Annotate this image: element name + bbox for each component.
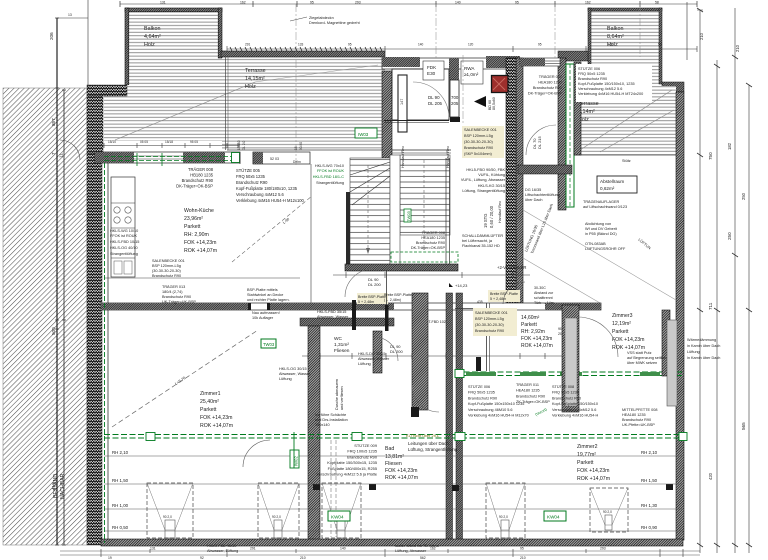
svg-text:857: 857: [51, 118, 56, 126]
svg-text:147: 147: [400, 99, 404, 105]
svg-text:Handlauf Rex: Handlauf Rex: [446, 146, 450, 168]
dining diagonal: [232, 196, 312, 262]
schalldaemmluefter label: [462, 234, 503, 248]
svg-text:95 05: 95 05: [190, 140, 198, 144]
svg-text:Abstellraum: Abstellraum: [600, 179, 624, 184]
svg-text:15/18: 15/18: [165, 140, 173, 144]
svg-text:DG 16/35: DG 16/35: [525, 188, 541, 192]
svg-text:FOK +14,23m: FOK +14,23m: [184, 240, 216, 246]
hkls fbd 3515 label: [317, 310, 349, 319]
left dim lines: [56, 18, 58, 545]
svg-text:Kopf-Fußplatte 150/150x10: Kopf-Fußplatte 150/150x10: [552, 402, 598, 406]
shaft wall: [412, 293, 428, 410]
svg-text:FRQ 50x5 1235: FRQ 50x5 1235: [236, 174, 266, 179]
kitchen ceiling edge line: [104, 277, 300, 279]
svg-text:Lüftung, Abwasser: Lüftung, Abwasser: [395, 549, 427, 553]
south wall band: [101, 539, 683, 546]
bsp platte olive note: [247, 288, 290, 302]
svg-text:92: 92: [200, 556, 204, 560]
svg-text:8,64m²: 8,64m²: [607, 34, 624, 40]
svg-text:Breite BSP-Platte: Breite BSP-Platte: [490, 292, 518, 296]
svg-text:Holz: Holz: [245, 84, 256, 90]
svg-text:SCHALLDÄMMLÜFTER: SCHALLDÄMMLÜFTER: [462, 234, 503, 238]
svg-text:Holz: Holz: [144, 42, 155, 48]
svg-text:Abstand zur: Abstand zur: [534, 291, 554, 295]
svg-text:80,5x60: 80,5x60: [492, 97, 496, 110]
svg-text:(→ 2,48m): (→ 2,48m): [384, 298, 401, 302]
halbdecke olive label: [462, 126, 504, 158]
svg-text:Zimmer2: Zimmer2: [577, 444, 598, 450]
svg-text:Brandschutz R90: Brandschutz R90: [578, 77, 607, 81]
svg-text:ROK +14,07m: ROK +14,07m: [577, 476, 610, 482]
terrace deck right part: [222, 58, 385, 150]
svg-text:10k Auflager: 10k Auflager: [252, 316, 274, 320]
svg-text:VUFIL, Kühlung: VUFIL, Kühlung: [478, 173, 505, 177]
svg-text:FFOK ist ROUK: FFOK ist ROUK: [110, 234, 137, 238]
svg-text:Wohn-Küche: Wohn-Küche: [184, 208, 214, 214]
neighbour wall masonry strip: [87, 153, 102, 545]
lift shaft: [392, 69, 449, 120]
svg-text:Brandschutz R90: Brandschutz R90: [552, 396, 581, 400]
svg-text:95: 95: [538, 43, 542, 47]
duct column: [450, 80, 459, 117]
green band boxes: [146, 433, 687, 441]
svg-text:Balkon: Balkon: [144, 26, 160, 32]
svg-text:19 STG: 19 STG: [483, 214, 488, 228]
svg-text:Stütz: Stütz: [622, 159, 631, 163]
svg-text:140: 140: [418, 43, 424, 47]
svg-text:OTN-083AB: OTN-083AB: [585, 242, 606, 246]
svg-text:BSP 120mm-L5g: BSP 120mm-L5g: [464, 134, 493, 138]
black post squares: [313, 484, 320, 490]
verteiler green dashed box: [391, 252, 458, 262]
wall WC east: [373, 331, 382, 373]
door jamb blocks: [352, 300, 356, 330]
svg-text:FRQ 50x5 1235: FRQ 50x5 1235: [468, 391, 495, 395]
svg-text:25,40m²: 25,40m²: [200, 399, 219, 405]
hkls do label: [358, 352, 390, 366]
svg-text:Balkon: Balkon: [607, 26, 623, 32]
green verticals near ducts: [293, 432, 295, 468]
svg-text:Parkett: Parkett: [200, 407, 217, 413]
svg-text:Verschraubung 4xM12 5.6: Verschraubung 4xM12 5.6: [578, 87, 622, 91]
door triangle: [474, 96, 486, 107]
svg-text:Lüftung, Strangentlüftung: Lüftung, Strangentlüftung: [408, 447, 458, 452]
svg-text:Verschraubung 4xM12 5.6: Verschraubung 4xM12 5.6: [552, 408, 596, 412]
svg-text:RH 1,00: RH 1,00: [112, 503, 129, 508]
svg-text:293: 293: [600, 547, 606, 551]
traeger 008 core label: [411, 231, 446, 250]
svg-text:140: 140: [340, 547, 346, 551]
tiny dim numbers bottom: [108, 547, 606, 560]
svg-text:Brandschutz R90: Brandschutz R90: [416, 241, 445, 245]
svg-text:1,31m²: 1,31m²: [334, 342, 349, 348]
svg-text:HKLS-DO 30/15: HKLS-DO 30/15: [358, 352, 385, 356]
svg-text:UK-Pfette=UK-BSP: UK-Pfette=UK-BSP: [622, 423, 655, 427]
svg-text:Isolier Wand ins TB-Wand: Isolier Wand ins TB-Wand: [395, 544, 439, 548]
right room west wall: [558, 58, 566, 210]
green purlin line: [104, 435, 682, 439]
svg-text:291: 291: [245, 43, 251, 47]
svg-text:RH 1,30: RH 1,30: [641, 503, 658, 508]
svg-text:Verschraubung 4xM12 5.6: Verschraubung 4xM12 5.6: [236, 192, 285, 197]
svg-text:Türk → 14m: Türk → 14m: [534, 301, 554, 305]
svg-text:STÜTZE 008: STÜTZE 008: [552, 385, 574, 389]
svg-text:über MWK setzen: über MWK setzen: [627, 361, 657, 365]
balcony border band left: [125, 8, 129, 85]
svg-text:SALENBECKE 001: SALENBECKE 001: [152, 259, 185, 263]
dense tick strip on chain dim: [230, 47, 382, 51]
svg-text:auf Begrenzung seitlich: auf Begrenzung seitlich: [627, 356, 666, 360]
vorfuehre note: [315, 413, 348, 427]
svg-text:Brandschutz R90: Brandschutz R90: [236, 180, 268, 185]
kitchen inner dim line: [101, 145, 240, 147]
svg-text:Fliesen: Fliesen: [385, 461, 402, 467]
svg-text:über Dach: über Dach: [525, 198, 543, 202]
svg-text:NACHBAR: NACHBAR: [60, 473, 66, 499]
svg-text:7: 7: [51, 152, 56, 155]
balcony border top: [588, 8, 662, 11]
svg-text:Brandschutz R90: Brandschutz R90: [475, 329, 504, 333]
vss note: [627, 351, 666, 365]
diele west wall lines: [486, 303, 488, 371]
terrace east boundary: [225, 57, 227, 150]
svg-text:in P55 (Bkknd DG): in P55 (Bkknd DG): [585, 232, 617, 236]
terrace right deck: [581, 86, 676, 155]
svg-text:Zimmer3: Zimmer3: [612, 313, 633, 319]
svg-text:HKLS-WG 10/10: HKLS-WG 10/10: [110, 229, 138, 233]
corner block: [662, 82, 684, 92]
svg-text:STÜTZE 006: STÜTZE 006: [468, 385, 490, 389]
interior dim line under core: [333, 274, 530, 276]
kitchen north wall band with windows: [95, 152, 240, 163]
svg-text:HKLS-KG 30/15: HKLS-KG 30/15: [478, 184, 505, 188]
svg-text:Drenkord- Magnettine gedreht: Drenkord- Magnettine gedreht: [309, 21, 361, 25]
core bottom wall: [345, 264, 458, 271]
TW03 box stair rotated: [404, 209, 411, 222]
svg-text:565: 565: [741, 422, 746, 430]
svg-text:(30-30-30-20-30): (30-30-30-20-30): [464, 140, 493, 144]
balcony border right: [659, 8, 662, 84]
svg-text:05 05: 05 05: [140, 140, 148, 144]
isolier note: [395, 544, 439, 553]
svg-text:VUFIL, Lüftung, Abwasser: VUFIL, Lüftung, Abwasser: [461, 178, 506, 182]
door arc lift: [413, 82, 449, 118]
north wall band right segment: [520, 58, 560, 66]
svg-text:Flachkanal 35-152 HD: Flachkanal 35-152 HD: [462, 244, 500, 248]
svg-text:FOK +14,23m: FOK +14,23m: [577, 468, 609, 474]
svg-text:BSP-Platte mittels: BSP-Platte mittels: [247, 288, 278, 292]
svg-text:(30-30-30-20-30): (30-30-30-20-30): [152, 269, 181, 273]
svg-text:FRQ 50x5 1235: FRQ 50x5 1235: [578, 72, 605, 76]
svg-text:und rechter Platte lagern.: und rechter Platte lagern.: [247, 298, 290, 302]
svg-text:90: 90: [558, 327, 562, 331]
west wall zigzag upper: [87, 96, 103, 153]
svg-text:RH 0,90: RH 0,90: [641, 525, 658, 530]
stair west rail: [346, 192, 350, 265]
door arc hall north: [345, 269, 373, 297]
stair right flight treads: [400, 155, 450, 235]
svg-text:Dehn: Dehn: [293, 160, 301, 164]
svg-text:Brandschutz R90: Brandschutz R90: [464, 146, 493, 150]
Zimmer1 diagonal: [112, 330, 258, 427]
svg-text:FRQ 100x5 1235: FRQ 100x5 1235: [347, 449, 377, 454]
svg-text:ZK-Träger=OK-BSP: ZK-Träger=OK-BSP: [516, 400, 550, 404]
building east edge at terrace: [574, 62, 581, 155]
svg-text:Brandschutz R90: Brandschutz R90: [182, 178, 214, 183]
svg-text:Kopf-Fußplatte 180/180x10, 123: Kopf-Fußplatte 180/180x10, 1235: [236, 186, 298, 191]
svg-text:STÜTZE 005: STÜTZE 005: [236, 168, 261, 173]
svg-text:DK-Träger=OK-BSP: DK-Träger=OK-BSP: [176, 184, 213, 189]
east outer wall band: [676, 92, 684, 540]
waermedaemmung note: [687, 338, 720, 360]
svg-text:Ziegelabdeckn: Ziegelabdeckn: [309, 16, 334, 20]
svg-text:12,19m²: 12,19m²: [612, 321, 631, 327]
svg-text:Wf und DV Geberit: Wf und DV Geberit: [585, 227, 618, 231]
svg-text:Nau aufmassen!: Nau aufmassen!: [252, 311, 280, 315]
kitchen hkls label: [110, 229, 139, 256]
svg-text:562: 562: [420, 556, 426, 560]
svg-text:LÜFTUNGSROHR OFF: LÜFTUNGSROHR OFF: [585, 247, 626, 251]
svg-text:RH: 2,90m: RH: 2,90m: [184, 232, 209, 238]
svg-text:DL 215: DL 215: [537, 135, 542, 149]
svg-text:TRÄGENAUFLAGER: TRÄGENAUFLAGER: [583, 200, 620, 204]
svg-text:schalttrennt: schalttrennt: [534, 296, 553, 300]
svg-text:RWA: RWA: [464, 66, 475, 71]
svg-text:419: 419: [51, 482, 56, 490]
door arc terrace top: [60, 140, 80, 160]
svg-text:250: 250: [727, 232, 732, 240]
svg-text:auf Liftschachtwand 0/123: auf Liftschachtwand 0/123: [583, 205, 627, 209]
ziegel note: [309, 16, 361, 25]
right room door arc: [526, 125, 556, 155]
svg-text:Parkett: Parkett: [612, 329, 629, 335]
core east wall: [506, 58, 516, 303]
svg-text:HKLS-OG 30/15: HKLS-OG 30/15: [279, 367, 307, 371]
stuetze/traeger labels under purlin: [468, 385, 529, 418]
traeger 013 label: [162, 285, 196, 304]
svg-text:13: 13: [68, 13, 72, 17]
svg-text:HKLS-FBD 18/1-C: HKLS-FBD 18/1-C: [313, 175, 344, 179]
north wall band of core: [382, 58, 520, 69]
tiny dim numbers top: [160, 1, 659, 5]
svg-text:5 + 2,48m: 5 + 2,48m: [358, 300, 374, 304]
svg-text:FRQ 50x5 1235: FRQ 50x5 1235: [552, 391, 579, 395]
svg-text:Verschraubung 46M10 5.6: Verschraubung 46M10 5.6: [468, 408, 513, 412]
svg-text:Terrasse: Terrasse: [245, 68, 266, 74]
svg-text:19,77m²: 19,77m²: [577, 452, 596, 458]
KW04 box right: [544, 511, 566, 521]
svg-text:Parkett: Parkett: [577, 460, 594, 466]
svg-text:13,81m²: 13,81m²: [385, 454, 404, 460]
wall Zimmer3 west: [562, 305, 579, 412]
terrace deck left part: [104, 96, 227, 141]
svg-text:DK-Träger=OK-BSP: DK-Träger=OK-BSP: [411, 246, 446, 250]
svg-text:RH 2,10: RH 2,10: [641, 450, 658, 455]
svg-text:30-30C: 30-30C: [534, 286, 546, 290]
bottom dim lines: [60, 550, 700, 552]
green west wall line: [104, 163, 106, 543]
svg-text:TRÄGER 008: TRÄGER 008: [422, 231, 445, 235]
svg-text:Brandschutz R90: Brandschutz R90: [533, 86, 562, 90]
beam end green box TW03: [232, 153, 240, 163]
terrace bottom edge line: [227, 149, 385, 151]
stair treads: [350, 158, 390, 265]
svg-text:Abdichtung von: Abdichtung von: [585, 222, 611, 226]
svg-text:180/4 (2,74): 180/4 (2,74): [162, 290, 183, 294]
svg-text:90 2,0: 90 2,0: [603, 510, 612, 514]
chained dim line: [227, 48, 697, 50]
svg-text:BSP 120mm-L5g: BSP 120mm-L5g: [475, 317, 504, 321]
svg-text:Brandschutz R90: Brandschutz R90: [152, 274, 181, 278]
svg-text:und Drs-Installation: und Drs-Installation: [315, 418, 348, 422]
otn label: [585, 242, 626, 251]
wall band east of kitchen: [253, 152, 310, 164]
stair well gap: [390, 155, 400, 265]
svg-text:HEA180 1235: HEA180 1235: [538, 81, 562, 85]
svg-text:Stahlwinkel an Decke: Stahlwinkel an Decke: [247, 293, 283, 297]
abdichtung label: [585, 222, 618, 236]
landing wall lines: [392, 149, 451, 151]
door arc zimmer3: [578, 317, 618, 357]
svg-text:56: 56: [658, 43, 662, 47]
svg-text:DL 2.0: DL 2.0: [242, 141, 246, 150]
stuetze 006 white backing: [576, 64, 652, 102]
svg-text:711: 711: [708, 302, 713, 310]
svg-text:23,96m²: 23,96m²: [184, 216, 203, 222]
svg-text:Verklebung 4xM16 HU54-H MT24x2: Verklebung 4xM16 HU54-H MT24x200: [578, 92, 643, 96]
svg-text:Kopfplatte 150/300x15, 1235: Kopfplatte 150/300x15, 1235: [327, 460, 377, 465]
chimney grey block: [667, 320, 677, 406]
terrace right south edge: [574, 154, 676, 156]
svg-text:DL 90: DL 90: [428, 95, 440, 100]
terrace north wall band: [221, 51, 385, 57]
svg-text:TRÄGER 008: TRÄGER 008: [188, 167, 214, 172]
svg-text:Leitungen über Dach: Leitungen über Dach: [408, 441, 449, 446]
door sill black: [450, 117, 460, 122]
svg-text:KLTNcht über 2h.L: KLTNcht über 2h.L: [406, 433, 440, 438]
svg-text:Strangentlüftung: Strangentlüftung: [110, 252, 138, 256]
right room south wall: [518, 165, 572, 174]
IW03 green box: [355, 128, 377, 138]
svg-text:TRÄGER 013: TRÄGER 013: [162, 285, 185, 289]
kitchen cabinets: [111, 177, 135, 277]
svg-text:IW03: IW03: [358, 132, 369, 137]
svg-text:Parkett: Parkett: [184, 224, 201, 230]
svg-text:133: 133: [298, 43, 304, 47]
svg-text:(SKP 5x104mm): (SKP 5x104mm): [464, 152, 493, 156]
svg-text:120: 120: [468, 43, 474, 47]
lauflinie arrow: [367, 165, 369, 250]
balcony border left: [588, 8, 591, 64]
green column strip: [566, 64, 574, 207]
WC north wall band: [300, 318, 394, 326]
svg-text:und verfliesen: und verfliesen: [340, 386, 344, 410]
hkls fbd 4530 label: [207, 544, 238, 553]
stuetze 010 label: [316, 443, 377, 477]
svg-text:435: 435: [477, 300, 483, 304]
door arc corridor south: [412, 385, 439, 412]
svg-text:DL 205: DL 205: [428, 101, 443, 106]
svg-text:Parkett: Parkett: [521, 322, 537, 328]
top dim line: [120, 3, 697, 5]
duct wall long: [446, 293, 453, 543]
svg-text:Wärmedämmung: Wärmedämmung: [687, 338, 716, 342]
svg-text:WC: WC: [334, 336, 343, 342]
svg-text:Verklebung 4xM16 HU54-H: Verklebung 4xM16 HU54-H: [552, 414, 598, 418]
svg-text:205: 205: [451, 101, 459, 106]
core west wall: [382, 71, 392, 158]
bottom dim ticks: [101, 549, 683, 557]
svg-text:FOK +14,23m: FOK +14,23m: [200, 415, 232, 421]
svg-text:FOK +14,23m: FOK +14,23m: [385, 468, 417, 474]
svg-text:TW03: TW03: [263, 342, 275, 347]
svg-text:VSS statt Putz: VSS statt Putz: [627, 351, 652, 355]
svg-text:HKLS-FBD 10/15: HKLS-FBD 10/15: [110, 240, 139, 244]
balcony Balkon 8,64 deck: [588, 8, 662, 86]
svg-text:210: 210: [300, 556, 306, 560]
svg-text:RH 1,50: RH 1,50: [112, 478, 129, 483]
stair left hkls label: [313, 164, 345, 185]
wall WC west: [308, 326, 320, 540]
Zimmer3 east wall: [662, 310, 670, 376]
svg-text:Zimmer1: Zimmer1: [200, 391, 221, 397]
svg-text:Lüftung: Lüftung: [687, 350, 700, 354]
balcony Balkon 4,64 deck: [125, 8, 222, 85]
svg-text:Handlauf Rex: Handlauf Rex: [498, 201, 502, 223]
skylight 1: [147, 483, 628, 538]
svg-text:Abwasser, Wasser,: Abwasser, Wasser,: [279, 372, 311, 376]
lift door jamb: [398, 75, 407, 132]
svg-text:Brandschutz R90: Brandschutz R90: [468, 396, 497, 400]
TW03 box mid: [261, 339, 276, 348]
svg-text:162: 162: [608, 43, 614, 47]
corridor east wall: [516, 58, 523, 303]
svg-text:0,62m²: 0,62m²: [600, 186, 615, 191]
svg-text:HEA180 1235: HEA180 1235: [421, 236, 445, 240]
svg-text:ROK +14,07m: ROK +14,07m: [385, 475, 418, 481]
nau aufmassen note: [252, 311, 280, 320]
door arc bad: [243, 440, 270, 467]
traeger 007 label: [528, 75, 563, 96]
hkl fbo label: [461, 168, 506, 193]
svg-text:19: 19: [108, 556, 112, 560]
svg-text:95: 95: [348, 43, 352, 47]
svg-text:RH 2,10: RH 2,10: [112, 450, 129, 455]
traeger 008 label: [176, 167, 214, 189]
svg-text:MITTELPFETTE 008: MITTELPFETTE 008: [622, 408, 657, 412]
svg-text:HKLS-FBD 35/15: HKLS-FBD 35/15: [317, 310, 346, 314]
corridor dim line: [302, 355, 562, 357]
svg-text:95: 95: [520, 547, 524, 551]
svg-text:11: 11: [59, 153, 64, 158]
IW02 rotated label: [290, 450, 299, 468]
svg-text:FOK +14,23m: FOK +14,23m: [612, 337, 644, 343]
svg-text:in Kamin über Dach: in Kamin über Dach: [687, 356, 720, 360]
svg-text:Lüftung: Lüftung: [358, 362, 371, 366]
door arc corridor mid: [374, 337, 398, 361]
RWA label box: [461, 61, 483, 84]
svg-text:DL 200: DL 200: [368, 282, 382, 287]
svg-text:131: 131: [150, 547, 156, 551]
svg-text:180x140: 180x140: [315, 423, 330, 427]
FDK label box: [423, 61, 444, 80]
kitchen west wall line: [107, 163, 109, 539]
svg-text:bei Lüftersacht, ja: bei Lüftersacht, ja: [462, 239, 493, 243]
svg-text:SALENBECKE 001: SALENBECKE 001: [464, 128, 497, 132]
svg-text:UK-Träger=UK-BSP: UK-Träger=UK-BSP: [162, 300, 196, 304]
balcony border band top: [125, 8, 222, 12]
